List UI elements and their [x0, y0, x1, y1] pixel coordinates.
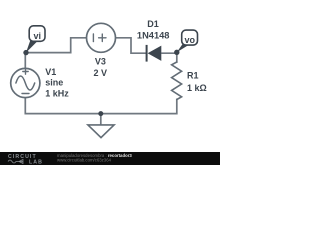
svg-text:V3: V3: [95, 57, 106, 67]
svg-text:vo: vo: [185, 35, 196, 45]
svg-text:R1: R1: [187, 71, 199, 81]
svg-text:www.circuitlab.com/c63z364: www.circuitlab.com/c63z364: [57, 158, 112, 163]
svg-text:V1: V1: [45, 67, 56, 77]
svg-text:1 kHz: 1 kHz: [45, 88, 69, 98]
svg-text:2 V: 2 V: [94, 68, 108, 78]
svg-text:sine: sine: [45, 78, 63, 88]
svg-text:D1: D1: [147, 19, 159, 29]
svg-text:vi: vi: [34, 31, 42, 41]
svg-text:LAB: LAB: [29, 159, 43, 165]
svg-text:1 kΩ: 1 kΩ: [187, 83, 207, 93]
svg-text:1N4148: 1N4148: [137, 31, 170, 41]
